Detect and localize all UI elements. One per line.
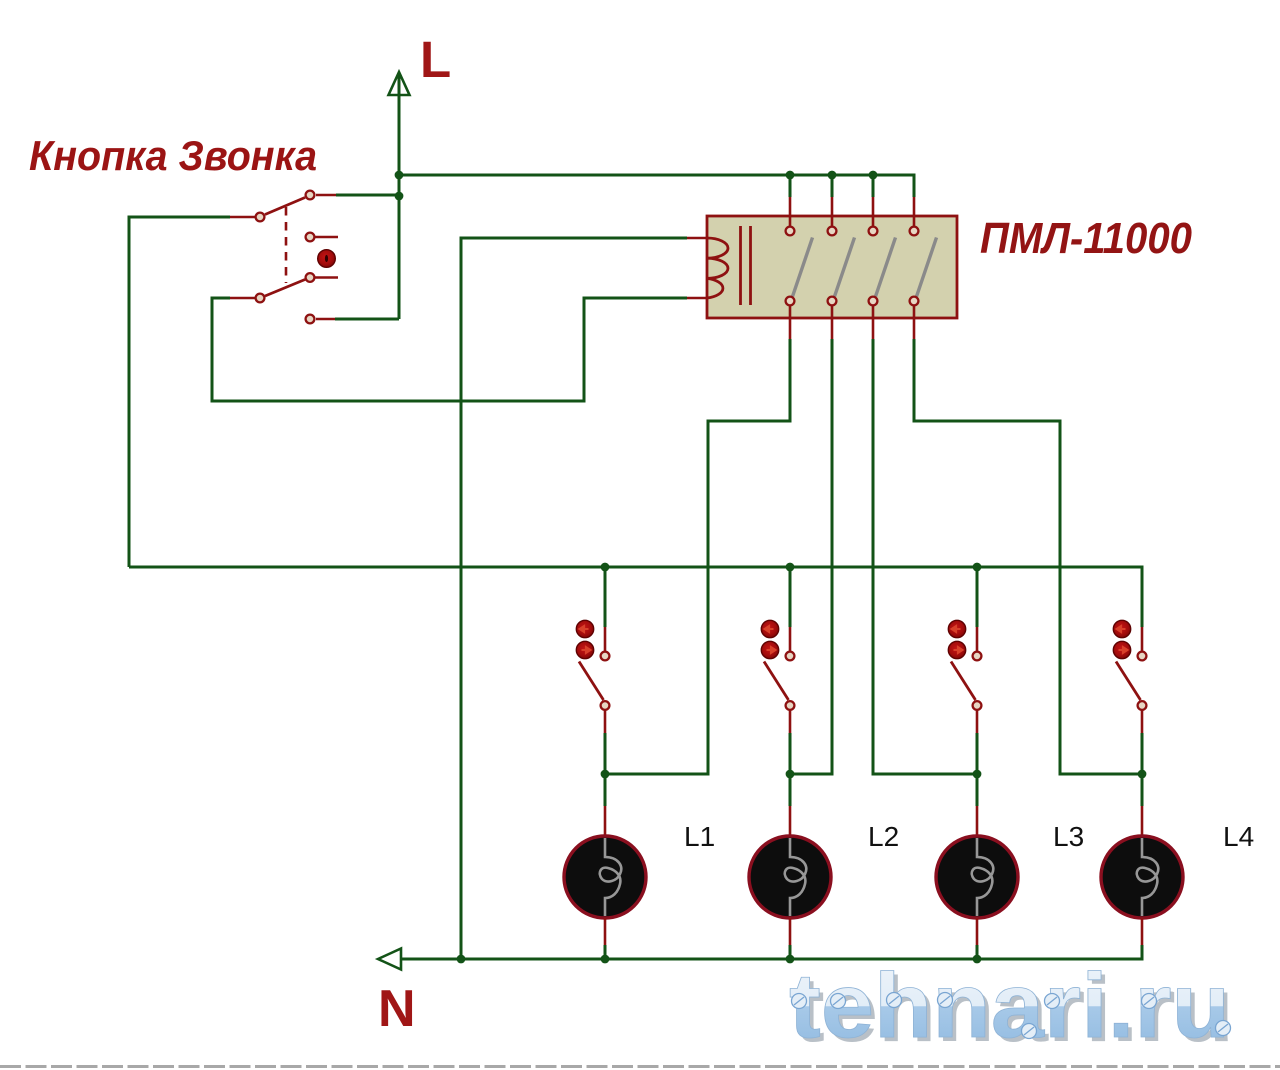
svg-text:L3: L3 [1053, 821, 1084, 852]
pushbutton indicator lamp [318, 250, 336, 268]
contactor core bar 1 [739, 226, 742, 305]
pushbutton lamp upper stub [315, 236, 338, 239]
lamp L3 [936, 836, 1018, 918]
wire contact2 to lamp L2 node [790, 339, 832, 774]
node junction bus switch SW2 [786, 563, 795, 572]
node junction L feed / button top pin [395, 192, 404, 201]
pushbutton lamp lower stub [315, 276, 338, 279]
node junction switch SW3 / contact wire / lamp L3 [973, 770, 982, 779]
contactor KM1 body [707, 216, 957, 318]
wire lamp L3 to N line [976, 918, 979, 945]
watermark tehnari.ru [789, 955, 1234, 1061]
node junction L feed / top horizontal [395, 171, 404, 180]
pushbutton lower pole left pin [256, 294, 265, 303]
wire lamp L4 to N line [1141, 918, 1144, 945]
wire node to lamp L1 [604, 774, 607, 806]
power terminal N arrow [378, 949, 401, 970]
lamp L1 [564, 836, 646, 918]
svg-text:N: N [378, 980, 416, 1038]
pushbutton top pole arm [265, 198, 305, 215]
wire contact3 to lamp L3 node [873, 339, 977, 774]
wire coil top terminal to N line [687, 237, 707, 240]
contactor main contact 2 [828, 175, 855, 339]
pushbutton bottom pin [306, 315, 315, 324]
wire L to contactor top horizontal [399, 174, 916, 177]
svg-text:Кнопка Звонка: Кнопка Звонка [29, 132, 317, 179]
svg-text:ПМЛ-11000: ПМЛ-11000 [980, 214, 1192, 263]
node junction switch SW1 / contact wire / lamp L1 [601, 770, 610, 779]
node junction switch SW2 / contact wire / lamp L2 [786, 770, 795, 779]
wire L vertical feed [398, 74, 401, 319]
contactor main contact 1 [786, 175, 813, 339]
switch SW2 [761, 567, 794, 774]
pushbutton top pole right pin [306, 191, 315, 200]
contactor coil winding [707, 238, 728, 298]
wire node to lamp L4 [1141, 774, 1144, 806]
pushbutton mechanical link dashed [285, 207, 288, 283]
bottom dashed divider [0, 1065, 1280, 1068]
contactor main contact 3 [869, 175, 896, 339]
contactor core bar 2 [749, 226, 752, 305]
wire lamp L2 to N line [789, 918, 792, 945]
wire button bottom pin to L feed corner [335, 318, 399, 321]
node junction bus switch SW1 [601, 563, 610, 572]
pushbutton lamp upper pin [306, 233, 315, 242]
switch SW3 [948, 567, 981, 774]
lamp L2 [749, 836, 831, 918]
lamp L4 [1101, 836, 1183, 918]
switch SW1 [576, 567, 609, 774]
wire node to lamp L2 [789, 774, 792, 806]
svg-text:L1: L1 [684, 821, 715, 852]
wire button top-right pin to L feed [316, 194, 336, 197]
wire lamp L1 to N line [604, 918, 607, 945]
pushbutton SB1 Кнопка Звонка [256, 191, 338, 324]
node junction switch SW4 / contact wire / lamp L4 [1138, 770, 1147, 779]
svg-text:tehnari.ru: tehnari.ru [789, 955, 1230, 1057]
node junction N / lamp L3 [973, 955, 982, 964]
switch SW4 [1113, 567, 1146, 774]
wire node to lamp L3 [976, 774, 979, 806]
wire button lower-left pin to coil bottom terminal [230, 297, 255, 300]
node junction bus switch SW3 [973, 563, 982, 572]
wire contact4 to lamp L4 node [914, 339, 1142, 774]
contactor main contact 4 [910, 175, 937, 339]
wire contact1 to lamp L1 node [605, 339, 790, 774]
node junction N / coil return [457, 955, 466, 964]
wire button top-left pin to switches bus [230, 216, 255, 219]
pushbutton lamp lower pin [306, 273, 315, 282]
node junction top horizontal pin3 [869, 171, 878, 180]
pushbutton lower pole arm [265, 280, 305, 297]
svg-text:L: L [420, 31, 451, 88]
svg-text:L4: L4 [1223, 821, 1254, 852]
node junction N / lamp L1 [601, 955, 610, 964]
svg-text:L2: L2 [868, 821, 899, 852]
node junction top horizontal pin2 [828, 171, 837, 180]
power terminal L arrow [389, 72, 410, 95]
node junction N / lamp L2 [786, 955, 795, 964]
wire switches bus horizontal [129, 566, 1144, 569]
node junction top horizontal pin1 [786, 171, 795, 180]
wire N horizontal [401, 958, 1144, 961]
pushbutton top pole left pin [256, 213, 265, 222]
